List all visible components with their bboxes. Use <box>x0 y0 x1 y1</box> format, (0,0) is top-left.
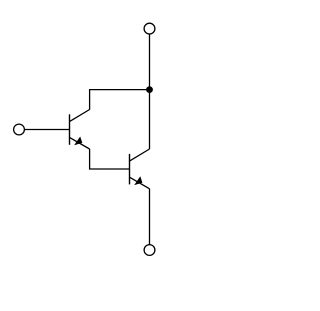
transistor Q2 collector diagonal <box>130 149 150 161</box>
terminal B (base, left) <box>14 124 25 135</box>
transistor Q2 emitter diagonal <box>130 177 150 189</box>
transistor Q1 bar <box>69 114 71 145</box>
transistor Q1 collector diagonal <box>70 110 90 122</box>
wire: Q2 emitter to emitter terminal <box>149 189 151 245</box>
transistor Q1 emitter arrow <box>74 137 82 146</box>
terminal E (emitter, bottom) <box>144 245 155 256</box>
transistor Q2 bar <box>129 154 131 185</box>
wire: collector terminal to junction and down to Q2 collector <box>149 34 151 149</box>
transistor Q2 emitter arrow <box>134 176 142 185</box>
node: junction dot <box>146 86 153 93</box>
wire: Q1 collector horizontal to junction <box>90 90 150 110</box>
wire: base terminal to Q1 base <box>25 129 70 131</box>
wire: Q1 emitter to Q2 base <box>90 149 130 169</box>
transistor Q1 emitter diagonal <box>70 137 90 149</box>
terminal C (collector, top) <box>144 23 155 34</box>
